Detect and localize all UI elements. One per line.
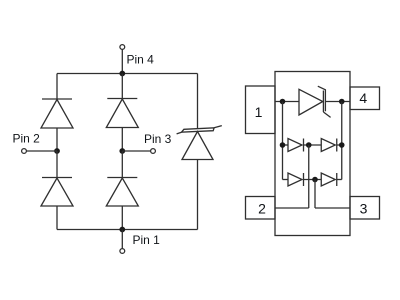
- wire upper-left branch: [56, 74, 58, 100]
- diode D4 (lower middle): [106, 178, 138, 207]
- wire D2 anode to Pin3 node: [121, 128, 123, 152]
- wire row1 left lead: [283, 144, 289, 146]
- svg-text:3: 3: [360, 200, 368, 216]
- diode D8 (package row2 right): [321, 173, 337, 186]
- zener Z1 cathode bar: [177, 126, 222, 134]
- wire row1 center drop to pin2: [308, 145, 310, 208]
- wire package top row right (Z1 to pin4): [326, 101, 351, 103]
- zener Z1 triangle: [182, 132, 213, 160]
- wire row1 right lead: [337, 144, 342, 146]
- svg-text:2: 2: [258, 200, 266, 216]
- package outline: [275, 72, 350, 236]
- wire left rail: [282, 102, 284, 180]
- diode D7 (package row2 left): [288, 173, 304, 186]
- pin pad 1: [246, 86, 276, 134]
- terminal Pin 3: [151, 149, 156, 154]
- wire right branch top: [197, 74, 199, 129]
- wire row2 center: [304, 179, 322, 181]
- wire Pin 3 lead: [122, 150, 150, 152]
- pin pad 3: [350, 197, 380, 220]
- node Pin3-junction: [119, 148, 125, 154]
- svg-text:Pin 3: Pin 3: [144, 132, 172, 146]
- svg-text:Pin 1: Pin 1: [133, 233, 161, 247]
- node Pin4-junction: [119, 71, 125, 77]
- wire bottom rail (Pin 1 net): [57, 229, 198, 231]
- wire pin2 bottom segment: [275, 207, 309, 209]
- wire D1 anode to Pin2 node: [56, 128, 58, 151]
- terminal Pin 4: [120, 45, 125, 50]
- node row1 center: [306, 142, 312, 148]
- node Pin1-junction: [119, 227, 125, 233]
- wire row2 left lead: [283, 179, 289, 181]
- wire Pin3 node to D4: [121, 151, 123, 178]
- pin pad 2: [246, 197, 276, 220]
- diode D2 (upper middle): [106, 99, 138, 128]
- diode D3 (lower left): [41, 178, 73, 207]
- pin pad 4: [350, 87, 380, 110]
- wire Pin 4 stub: [121, 49, 123, 73]
- wire pin3 bottom segment: [315, 207, 350, 209]
- wire top rail (Pin 4 net): [57, 73, 198, 75]
- wire Pin 1 stub: [121, 230, 123, 249]
- diode D1 (upper left): [41, 99, 73, 128]
- zener Z1 (package) bar: [318, 86, 331, 117]
- wire upper-middle branch: [121, 74, 123, 99]
- terminal Pin 1: [120, 249, 125, 254]
- zener Z1 (package) triangle: [299, 89, 323, 115]
- svg-text:Pin 4: Pin 4: [127, 53, 155, 67]
- node package top-right: [339, 99, 345, 105]
- wire D4 anode to bottom rail: [121, 206, 123, 230]
- wire Pin 2 lead: [26, 150, 57, 152]
- wire package top row left (pin1 to Z1): [275, 101, 299, 103]
- diode D5 (package row1 left): [288, 139, 304, 152]
- wire row1 center: [304, 144, 322, 146]
- node row1 left rail: [280, 142, 286, 148]
- terminal Pin 2: [22, 149, 27, 154]
- wire row2 center drop to pin3: [314, 180, 316, 209]
- svg-text:4: 4: [359, 90, 367, 106]
- wire Z1 anode to bottom rail: [197, 160, 199, 230]
- node row2 center: [312, 177, 318, 183]
- wire Pin2 node to D3: [56, 151, 58, 178]
- svg-text:1: 1: [255, 104, 263, 120]
- node row1 right rail: [339, 142, 345, 148]
- wire D3 anode to bottom rail: [56, 206, 58, 230]
- svg-text:Pin 2: Pin 2: [13, 131, 41, 145]
- wire row2 right lead: [337, 179, 342, 181]
- wire right rail: [341, 102, 343, 180]
- node Pin2-junction: [54, 148, 60, 154]
- node package top-left: [280, 99, 286, 105]
- diode D6 (package row1 right): [321, 139, 337, 152]
